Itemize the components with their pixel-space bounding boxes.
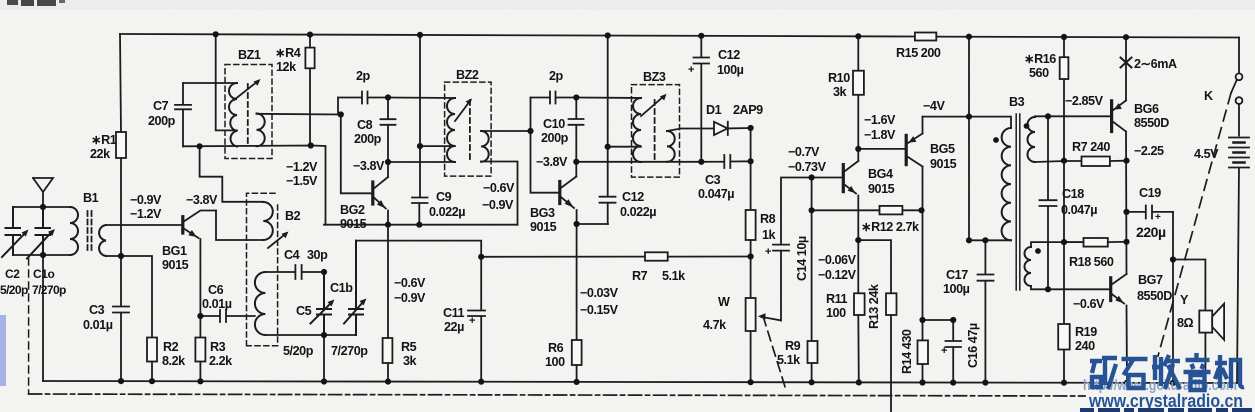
- transformer BZ3 box: [632, 85, 680, 178]
- resistor R14: [918, 340, 929, 364]
- svg-text:0.022µ: 0.022µ: [429, 205, 465, 219]
- svg-text:2p: 2p: [549, 69, 564, 83]
- transformer BZ3 primary: [633, 98, 641, 162]
- transformer BZ2 tuning arrow: [455, 101, 470, 121]
- wire 2p node to BZ2 primary top: [388, 97, 455, 100]
- svg-text:100: 100: [545, 355, 565, 369]
- wire emitter bus y225: [324, 224, 518, 226]
- svg-text:C17: C17: [946, 268, 968, 282]
- transformer B2 box: [247, 193, 278, 345]
- svg-text:7/270p: 7/270p: [32, 283, 66, 297]
- svg-text:2.2k: 2.2k: [209, 354, 233, 368]
- resistor R13: [886, 293, 897, 315]
- svg-text:−0.9V: −0.9V: [482, 198, 514, 212]
- svg-text:12k: 12k: [276, 60, 297, 74]
- resistor R16: [1060, 57, 1069, 79]
- wire -4V rail to B3 primary top: [923, 117, 1012, 128]
- capacitor C3: [113, 307, 129, 313]
- transformer B1 primary: [70, 207, 78, 255]
- svg-text:R10: R10: [828, 71, 850, 85]
- wire BZ3 tap horizontal: [608, 146, 641, 148]
- wire BG2 emitter down to R5 and ground: [387, 211, 389, 382]
- svg-text:100µ: 100µ: [717, 63, 744, 77]
- transformer BZ3 secondary: [667, 131, 675, 162]
- watermark bottom cut strip: [1080, 408, 1252, 412]
- transformer BZ1 secondary: [257, 114, 265, 147]
- wire left vertical R1 branch: [120, 34, 121, 381]
- wire BG6 emitter up through meter to rail: [1125, 37, 1127, 100]
- resistor R12 wire: [812, 209, 922, 211]
- svg-text:22µ: 22µ: [444, 320, 464, 334]
- capacitor C6: [200, 310, 254, 322]
- speaker Y: [1199, 311, 1212, 333]
- svg-text:C1b: C1b: [330, 281, 353, 295]
- svg-text:R7 240: R7 240: [1072, 140, 1110, 154]
- svg-text:+: +: [941, 345, 947, 357]
- svg-text:C10: C10: [543, 117, 565, 131]
- svg-text:BG2: BG2: [340, 203, 365, 217]
- svg-text:C12: C12: [718, 48, 740, 62]
- svg-text:+: +: [765, 246, 771, 258]
- capacitor C12 (0.022u): [600, 147, 616, 224]
- wire B1 secondary bottom to R2: [106, 256, 152, 381]
- resistor R8: [746, 210, 756, 240]
- svg-text:9015: 9015: [930, 157, 957, 171]
- svg-text:C7: C7: [153, 99, 169, 113]
- junction dots ground rail: [118, 378, 124, 384]
- wire BZ2 secondary top to BG3 base node: [481, 130, 531, 132]
- wire BG1 emitter down through C6 node to R3: [199, 239, 201, 381]
- wire tank bottom: [13, 254, 70, 256]
- svg-text:5/20p: 5/20p: [0, 283, 28, 297]
- potentiometer W wiper arrow: [761, 317, 781, 321]
- svg-text:200p: 200p: [541, 131, 569, 145]
- svg-text:C14 10µ: C14 10µ: [795, 236, 809, 281]
- wire tank top: [13, 206, 70, 208]
- transistor BG4: [842, 165, 845, 192]
- capacitor C19 electrolytic series: [1127, 206, 1174, 219]
- svg-text:C8: C8: [357, 118, 373, 132]
- wire ground rail: [43, 381, 1237, 383]
- svg-text:−0.6V: −0.6V: [1073, 297, 1105, 311]
- resistor R3: [195, 338, 205, 362]
- svg-text:BG3: BG3: [530, 206, 555, 220]
- svg-text:∗R16: ∗R16: [1024, 52, 1056, 66]
- svg-text:C11: C11: [443, 306, 465, 320]
- capacitor C10: [569, 98, 584, 162]
- transformer B2 secondary: [255, 272, 266, 335]
- wire BG5 collector down through R14: [922, 167, 924, 383]
- variable capacitor C1b: [344, 241, 364, 335]
- top-left scan fragments: [7, 0, 18, 5]
- svg-text:R19: R19: [1075, 325, 1097, 339]
- svg-text:100: 100: [826, 306, 846, 320]
- wire BZ1 secondary node down: [337, 98, 339, 115]
- wire 2p node to BZ3 primary top: [576, 97, 641, 100]
- wire C19 to speaker: [1173, 212, 1205, 383]
- wire BZ2 tap horizontal: [420, 145, 455, 147]
- resistor R12: [880, 206, 903, 215]
- svg-text:−3.8V: −3.8V: [536, 155, 568, 169]
- wire BG3 collector to C10 node: [575, 162, 577, 177]
- svg-text:560: 560: [1029, 66, 1049, 80]
- svg-text:C3: C3: [89, 303, 105, 317]
- wire tank bottom line to ground: [265, 335, 356, 382]
- resistor R18: [1084, 238, 1108, 247]
- svg-text:R15 200: R15 200: [896, 46, 941, 60]
- svg-text:−0.15V: −0.15V: [580, 303, 619, 317]
- wire B3 upper secondary bottom to R7 node: [1035, 161, 1064, 162]
- capacitor C8: [381, 98, 396, 163]
- svg-text:R14 430: R14 430: [900, 329, 914, 374]
- svg-text:B3: B3: [1009, 95, 1025, 109]
- svg-text:−1.8V: −1.8V: [864, 128, 896, 142]
- wire BG4 emitter down through R11: [857, 196, 860, 383]
- svg-text:C3: C3: [705, 173, 721, 187]
- resistor R19: [1058, 324, 1070, 350]
- svg-text:5.1k: 5.1k: [777, 353, 801, 367]
- svg-text:220µ: 220µ: [1136, 224, 1166, 240]
- wire BG4 collector to BG5 base: [858, 148, 904, 150]
- wire B3 upper secondary top to BG6 base: [1035, 115, 1110, 118]
- svg-text:∗R12 2.7k: ∗R12 2.7k: [861, 220, 920, 234]
- svg-text:C1o: C1o: [33, 267, 54, 281]
- svg-text:5/20p: 5/20p: [283, 344, 314, 358]
- svg-text:−0.7V: −0.7V: [788, 145, 820, 159]
- wire W wiper to C14 to BG4 base line: [781, 178, 842, 321]
- resistor R7 (240) wire: [1064, 160, 1127, 162]
- capacitor C12 (100u) electrolytic: [694, 36, 710, 162]
- svg-text:C18: C18: [1062, 187, 1084, 201]
- svg-text:8550D: 8550D: [1134, 116, 1169, 130]
- capacitor 2p (BG3 coupling): [531, 92, 577, 104]
- variable capacitor C5: [311, 272, 332, 335]
- svg-text:−0.73V: −0.73V: [788, 160, 827, 174]
- svg-text:−0.06V: −0.06V: [818, 253, 857, 267]
- svg-text:240: 240: [1075, 339, 1095, 353]
- svg-text:−1.2V: −1.2V: [130, 207, 162, 221]
- svg-text:7/270p: 7/270p: [331, 344, 368, 358]
- gang dashed line K to W: [1158, 93, 1231, 356]
- capacitor C11: [468, 311, 485, 382]
- gang dashed line near W: [763, 316, 786, 390]
- svg-text:22k: 22k: [90, 147, 111, 161]
- resistor R10: [853, 71, 864, 95]
- svg-text:200p: 200p: [354, 132, 382, 146]
- transformer B3 core: [1016, 114, 1020, 290]
- wire BG2 base path: [341, 115, 372, 194]
- wire BG7 emitter to ground: [1126, 306, 1129, 383]
- wire supply branch x969: [968, 37, 970, 241]
- wire BG1 top terminal to B2 primary bottom: [216, 211, 263, 241]
- svg-text:R18 560: R18 560: [1069, 255, 1114, 269]
- wire R13 branch: [858, 240, 891, 412]
- svg-text:0.022µ: 0.022µ: [620, 205, 656, 219]
- svg-text:−3.8V: −3.8V: [186, 193, 218, 207]
- transformer B2 primary: [263, 202, 273, 240]
- resistor R15 (in top rail): [915, 33, 936, 41]
- svg-text:5.1k: 5.1k: [662, 269, 686, 283]
- capacitor C7: [175, 83, 191, 146]
- wire B3 lower secondary bottom to BG7 base: [1031, 286, 1109, 289]
- wire BZ1 tap from top rail: [216, 34, 237, 130]
- svg-text:9015: 9015: [530, 220, 557, 234]
- svg-text:R9: R9: [785, 339, 801, 353]
- svg-text:−0.03V: −0.03V: [580, 286, 619, 300]
- svg-text:B2: B2: [285, 209, 301, 223]
- resistor R18 wire: [1064, 241, 1127, 243]
- svg-text:C19: C19: [1139, 186, 1161, 200]
- wire BZ3 tap from top rail: [607, 36, 609, 147]
- resistor R4: [305, 48, 314, 69]
- wire C16 branch: [923, 320, 954, 383]
- wire R9 branch: [811, 178, 813, 383]
- svg-text:−1.5V: −1.5V: [286, 174, 318, 188]
- svg-text:BG5: BG5: [930, 142, 955, 156]
- svg-text:−4V: −4V: [923, 99, 945, 113]
- svg-text:B1: B1: [83, 191, 99, 205]
- svg-text:0.047µ: 0.047µ: [698, 187, 734, 201]
- wire BZ3 secondary top to D1: [667, 129, 714, 132]
- transistor BG6: [1110, 101, 1113, 132]
- wire BG3 base path: [531, 98, 559, 193]
- transformer B3 upper secondary: [1028, 117, 1036, 162]
- svg-text:8Ω: 8Ω: [1177, 316, 1194, 330]
- wire R16 / R19 branch x1064: [1063, 37, 1065, 383]
- transformer B3 polarity dots: [993, 137, 999, 143]
- wire top rail right corner down to switch: [1238, 38, 1240, 74]
- transformer B3 primary: [1002, 128, 1011, 240]
- transformer BZ3 tuning arrow: [641, 96, 664, 116]
- svg-text:0.01µ: 0.01µ: [83, 318, 113, 332]
- svg-text:BG7: BG7: [1138, 273, 1163, 287]
- wire BZ3 bottom bus to C3 node: [576, 161, 701, 163]
- wire top supply rail: [120, 34, 1239, 38]
- svg-text:+: +: [1155, 212, 1161, 223]
- svg-text:C4: C4: [284, 248, 300, 262]
- capacitor C14 electrolytic: [773, 245, 789, 251]
- svg-text:−0.6V: −0.6V: [394, 276, 426, 290]
- svg-text:200p: 200p: [148, 114, 176, 128]
- wire BZ2 tap from top rail: [419, 35, 421, 146]
- left blue scan bar: [0, 315, 6, 386]
- svg-text:BG4: BG4: [868, 167, 893, 181]
- transformer BZ2 box: [445, 82, 492, 176]
- svg-text:Y: Y: [1180, 293, 1189, 307]
- svg-text:BG1: BG1: [162, 244, 187, 258]
- gang dashed line C2/C1a: [28, 258, 30, 394]
- svg-text:BZ2: BZ2: [456, 68, 479, 82]
- capacitor C18 branch: [1040, 116, 1057, 289]
- battery 4.5V: [1229, 104, 1249, 383]
- wire BG3 emitter down to R6 and ground: [576, 210, 578, 382]
- transformer BZ1 primary: [229, 83, 237, 147]
- svg-text:0.01µ: 0.01µ: [202, 297, 232, 311]
- svg-text:1k: 1k: [762, 228, 777, 242]
- capacitor 2p (BG2 coupling): [338, 92, 388, 104]
- svg-text:9015: 9015: [162, 258, 189, 272]
- transformer BZ1 tuning arrow: [234, 81, 258, 100]
- svg-text:∗R4: ∗R4: [275, 46, 301, 60]
- antenna: [33, 178, 53, 207]
- svg-text:30p: 30p: [307, 248, 328, 262]
- resistor R7 (240): [1082, 157, 1110, 167]
- svg-text:−0.12V: −0.12V: [818, 268, 857, 282]
- transformer BZ1 core: [247, 84, 249, 146]
- transistor BG5: [905, 135, 908, 164]
- wire C7 top to BZ1 primary: [183, 82, 237, 84]
- svg-text:R8: R8: [760, 212, 776, 226]
- svg-text:R13 24k: R13 24k: [867, 283, 881, 329]
- capacitor C4: [265, 265, 324, 279]
- svg-text:4.5V: 4.5V: [1194, 147, 1219, 161]
- transistor BG3: [558, 182, 561, 204]
- wire BG3 emitter bypass branch: [577, 223, 608, 225]
- svg-text:+: +: [688, 64, 694, 76]
- svg-text:K: K: [1204, 89, 1213, 103]
- svg-text:+: +: [469, 315, 475, 327]
- svg-text:R2: R2: [163, 340, 179, 354]
- wire BZ2 primary bottom to C8 node: [388, 161, 455, 163]
- variable capacitor C1a: [27, 207, 52, 259]
- transformer B1 core: [88, 211, 92, 253]
- transformer B1 secondary: [99, 225, 106, 256]
- svg-text:R5: R5: [401, 340, 417, 354]
- svg-text:C16 47µ: C16 47µ: [966, 323, 980, 368]
- resistor R4 vertical wires: [309, 35, 311, 146]
- wire zigzag BZ1 bottom to B2 primary top: [200, 146, 264, 202]
- switch K circles: [1236, 73, 1243, 80]
- svg-text:W: W: [718, 295, 730, 309]
- svg-text:R3: R3: [210, 340, 226, 354]
- junction dots top rail: [213, 31, 219, 37]
- wire oscillator feedback line: [356, 241, 481, 310]
- svg-text:−0.6V: −0.6V: [483, 181, 515, 195]
- transistor BG2: [371, 182, 374, 204]
- capacitor C9: [412, 146, 428, 225]
- wire tank down to ground: [42, 255, 44, 381]
- transformer BZ1 box: [225, 65, 272, 159]
- svg-text:C9: C9: [436, 190, 452, 204]
- wire BG2 collector to C8 node: [387, 162, 389, 177]
- wire BZ1 secondary top to BG2 base node: [257, 113, 341, 116]
- resistor R7 (5.1k): [645, 252, 668, 260]
- wire R10 branch / BG4 collector: [857, 36, 859, 161]
- transformer BZ2 primary: [447, 98, 455, 162]
- capacitor C16 electrolytic: [946, 341, 962, 347]
- transformer BZ2 secondary: [481, 131, 489, 162]
- svg-text:0.047µ: 0.047µ: [1061, 203, 1097, 217]
- svg-text:C12: C12: [622, 190, 644, 204]
- svg-text:∗R1: ∗R1: [91, 133, 117, 147]
- svg-text:BZ1: BZ1: [238, 48, 261, 62]
- transistor BG1: [181, 217, 184, 233]
- svg-text:2p: 2p: [356, 69, 371, 83]
- svg-text:4.7k: 4.7k: [703, 318, 727, 332]
- transformer BZ3 core: [654, 100, 656, 162]
- svg-text:−1.6V: −1.6V: [864, 113, 896, 127]
- capacitor C17 electrolytic: [978, 240, 994, 382]
- svg-text:8.2k: 8.2k: [162, 354, 186, 368]
- wire B3 lower secondary top to R18: [1031, 242, 1084, 247]
- resistor R6: [572, 340, 582, 365]
- svg-text:R6: R6: [548, 341, 564, 355]
- svg-text:9015: 9015: [340, 217, 367, 231]
- svg-text:−2.25: −2.25: [1134, 144, 1164, 158]
- resistor R9: [808, 341, 818, 363]
- switch K lever: [1231, 81, 1237, 94]
- top gray scan band: [0, 0, 1255, 10]
- wire BZ2 secondary bottom drop: [481, 162, 518, 225]
- resistor R2: [147, 338, 157, 362]
- capacitor C3 (0.047u) series: [701, 155, 750, 168]
- wire D1 node down through R8 and W to ground: [750, 128, 752, 382]
- wire B1 secondary top to BG1 base: [106, 224, 182, 226]
- svg-text:C5: C5: [296, 304, 312, 318]
- svg-text:−0.9V: −0.9V: [130, 193, 162, 207]
- svg-text:BZ3: BZ3: [643, 70, 666, 84]
- svg-text:8550D: 8550D: [1137, 289, 1172, 303]
- svg-text:−3.8V: −3.8V: [353, 159, 385, 173]
- wire B3 primary bottom bus: [969, 239, 1011, 241]
- meter mark 2~6mA: [1121, 58, 1132, 68]
- svg-text:−2.85V: −2.85V: [1065, 94, 1104, 108]
- chassis dash-dot line bottom: [29, 394, 1085, 396]
- svg-text:2∼6mA: 2∼6mA: [1134, 57, 1177, 71]
- watermark chinese characters (drawn strokes): [1090, 353, 1244, 390]
- svg-text:−0.9V: −0.9V: [394, 291, 426, 305]
- resistor R11: [854, 293, 865, 315]
- svg-text:D1: D1: [706, 103, 722, 117]
- svg-text:R7: R7: [632, 269, 648, 283]
- wire BG6 collector chain x1126: [1125, 132, 1128, 275]
- transistor BG7: [1109, 278, 1112, 301]
- diode D1: [714, 122, 728, 135]
- svg-text:C6: C6: [208, 283, 224, 297]
- transformer BZ2 core: [469, 100, 471, 160]
- resistor R5: [383, 338, 393, 363]
- svg-text:−1.2V: −1.2V: [286, 160, 318, 174]
- svg-text:C2: C2: [5, 267, 20, 281]
- svg-text:R11: R11: [826, 292, 848, 306]
- junction dots circuit nodes: [40, 204, 46, 210]
- resistor R1: [116, 132, 126, 158]
- variable capacitor C2: [2, 207, 26, 257]
- potentiometer W: [746, 298, 756, 331]
- transformer B2 tuning arrow: [268, 234, 286, 249]
- svg-text:BG6: BG6: [1134, 102, 1159, 116]
- svg-text:3k: 3k: [403, 354, 418, 368]
- transformer B3 lower secondary: [1025, 247, 1032, 286]
- svg-text:9015: 9015: [868, 182, 895, 196]
- wire BZ1 bottom bus: [183, 146, 326, 225]
- svg-text:100µ: 100µ: [943, 282, 970, 296]
- wire AGC line R7: [481, 256, 750, 258]
- svg-text:3k: 3k: [833, 85, 848, 99]
- wire BG5 emitter to -4V rail: [922, 117, 924, 134]
- svg-text:2AP9: 2AP9: [733, 103, 763, 117]
